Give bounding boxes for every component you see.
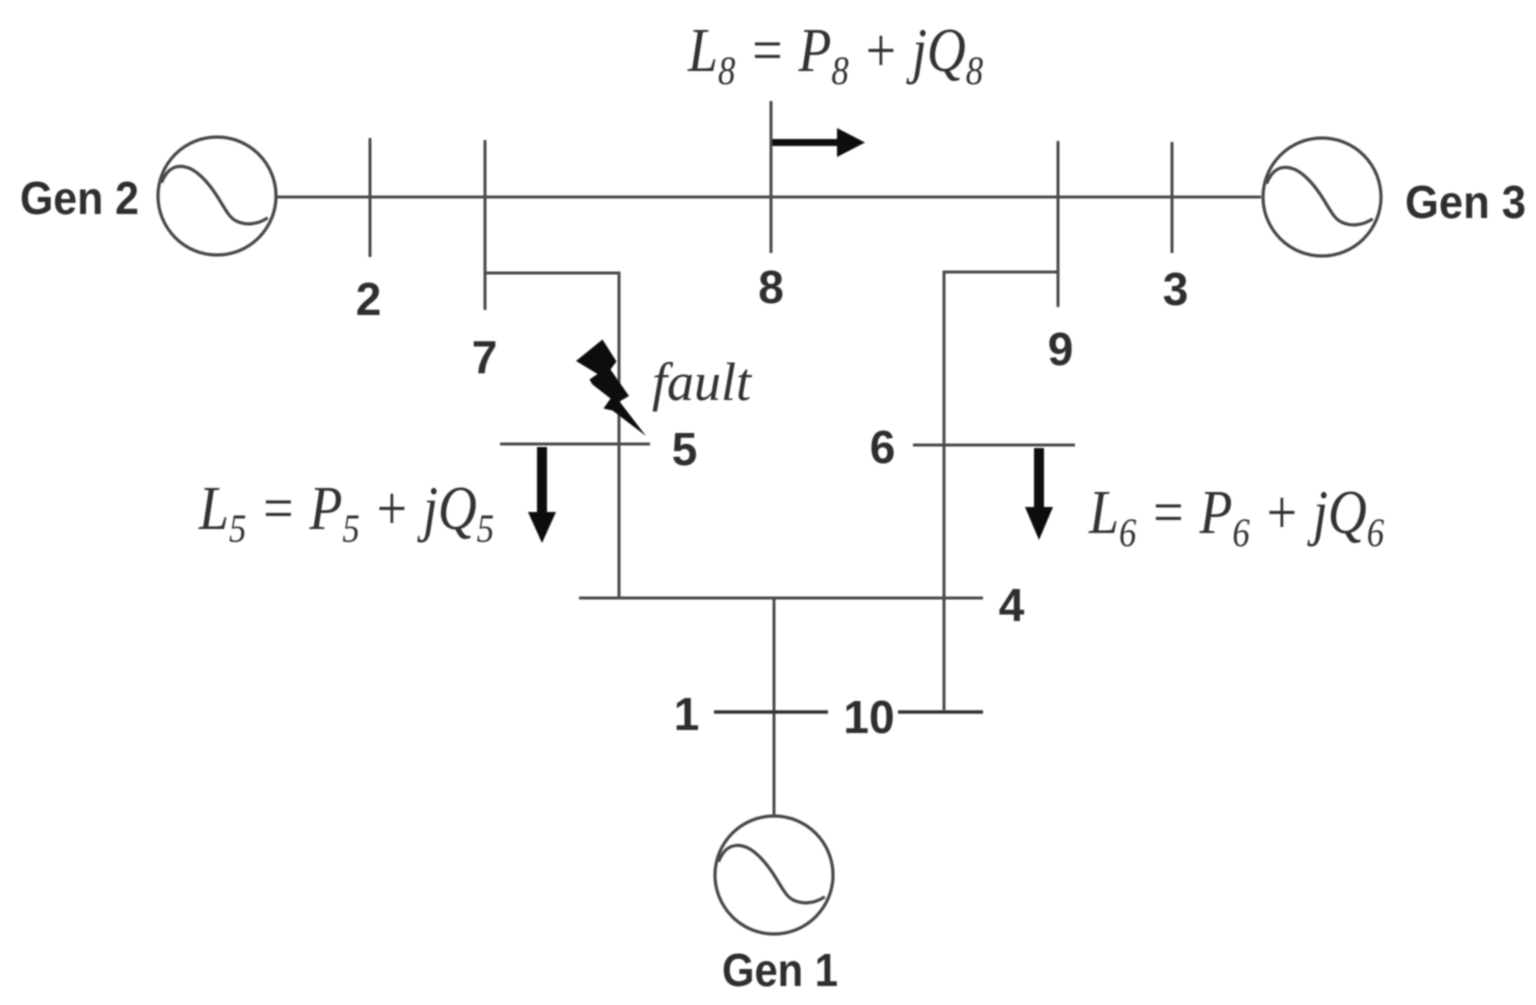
wire: bus 4 down to Gen 1 <box>773 598 776 816</box>
bus 8 bar <box>770 101 773 253</box>
load arrow at bus 5 <box>528 447 556 543</box>
svg-text:6: 6 <box>870 421 896 473</box>
wire: bus 9 to bus 6 <box>944 272 1058 710</box>
svg-text:7: 7 <box>472 331 498 383</box>
svg-text:9: 9 <box>1048 323 1074 375</box>
svg-text:fault: fault <box>652 352 753 412</box>
bus 10 bar <box>898 710 983 713</box>
load label L5 = P5 + jQ5 <box>198 473 494 551</box>
bus 6 bar <box>913 444 1075 447</box>
generator G2 <box>158 137 276 255</box>
wire: bus 7 to bus 5 <box>485 273 619 598</box>
bus 2 bar <box>369 138 372 257</box>
bus 9 bar <box>1057 141 1060 307</box>
generator G3 <box>1263 138 1381 256</box>
wire: main transmission line from Gen2 to Gen3 <box>275 196 1261 199</box>
bus 7 bar <box>484 140 487 310</box>
svg-text:5: 5 <box>672 423 698 475</box>
svg-text:4: 4 <box>999 579 1025 631</box>
svg-text:Gen 3: Gen 3 <box>1405 176 1526 228</box>
svg-text:10: 10 <box>843 691 894 743</box>
svg-text:3: 3 <box>1163 263 1189 315</box>
bus 3 bar <box>1171 142 1174 253</box>
fault lightning bolt <box>576 340 646 437</box>
load arrow at bus 6 <box>1025 448 1053 540</box>
power-flow arrow at bus 8 <box>772 128 865 157</box>
load label L8 = P8 + jQ8 <box>687 15 983 93</box>
svg-text:Gen 2: Gen 2 <box>20 172 139 224</box>
bus 5 bar <box>500 443 650 446</box>
svg-text:Gen 1: Gen 1 <box>722 944 838 996</box>
bus 4 bar <box>579 597 983 600</box>
load label L6 = P6 + jQ6 <box>1088 477 1384 555</box>
bus 1 bar <box>714 710 828 713</box>
svg-text:2: 2 <box>356 273 382 325</box>
svg-text:8: 8 <box>758 261 784 313</box>
svg-text:1: 1 <box>674 688 700 740</box>
generator G1 <box>715 816 833 934</box>
